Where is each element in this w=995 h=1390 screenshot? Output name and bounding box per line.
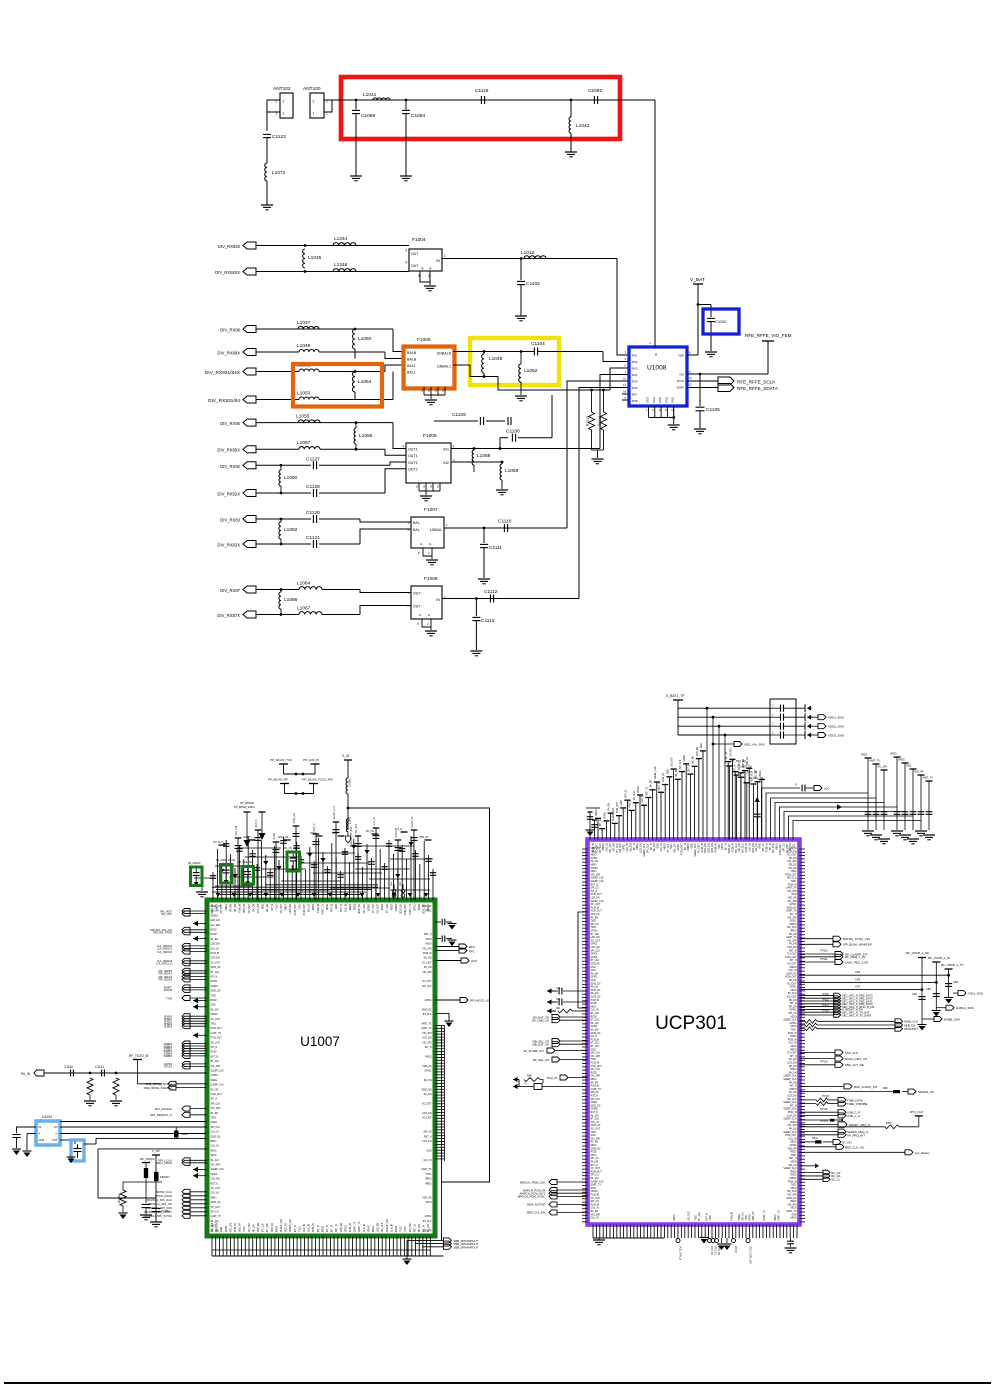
svg-text:GND: GND <box>646 397 650 403</box>
svg-text:INT_N: INT_N <box>790 960 797 962</box>
svg-text:PCM_IN: PCM_IN <box>732 843 734 852</box>
svg-text:VREG: VREG <box>739 1214 741 1221</box>
svg-text:VDDIO: VDDIO <box>789 924 796 926</box>
svg-text:UART_TX: UART_TX <box>321 904 324 915</box>
U1007 top pin drop wires <box>212 872 214 900</box>
svg-text:BFE_CLK_EN: BFE_CLK_EN <box>527 1211 545 1215</box>
connector VDD2_SNS <box>811 725 818 727</box>
UCP301 left conn pair 1 <box>552 1015 560 1020</box>
svg-text:LDO_EN: LDO_EN <box>787 1063 797 1065</box>
svg-text:SPI_CS: SPI_CS <box>309 904 311 913</box>
UCP301 right SERES rows <box>800 1131 839 1133</box>
inductor L1067 <box>299 612 322 615</box>
UCP301 bottom cap right <box>790 1238 792 1241</box>
svg-text:VDDIO: VDDIO <box>211 915 218 917</box>
svg-text:UART_TX: UART_TX <box>421 1168 432 1171</box>
svg-text:R310: R310 <box>886 1122 893 1125</box>
svg-text:VDD_PA: VDD_PA <box>243 904 246 913</box>
UCP301 right arrow row <box>800 1165 816 1167</box>
svg-text:PA_ON: PA_ON <box>789 1128 797 1131</box>
svg-text:BT_CLK: BT_CLK <box>591 1046 600 1048</box>
UCP301 top right columns <box>865 757 872 759</box>
svg-text:XO_OUT: XO_OUT <box>787 983 797 985</box>
svg-text:VDD_PA: VDD_PA <box>591 913 600 916</box>
svg-text:DIV_RX83X: DIV_RX83X <box>217 543 240 548</box>
svg-text:RF_PRQ_1_IN: RF_PRQ_1_IN <box>845 955 865 959</box>
wire RF to U1008 top <box>654 100 656 347</box>
svg-text:CR5: CR5 <box>855 970 861 974</box>
svg-text:RXD2: RXD2 <box>211 1052 218 1054</box>
svg-text:CLK_IN: CLK_IN <box>749 843 751 851</box>
svg-text:SLEEP_CLK: SLEEP_CLK <box>290 1218 292 1232</box>
svg-text:RST_N: RST_N <box>211 1056 219 1058</box>
filter F1008 <box>411 586 442 619</box>
svg-text:VDDIO: VDDIO <box>591 868 598 870</box>
svg-text:SLEEP_CLK: SLEEP_CLK <box>783 1079 797 1081</box>
svg-text:C1100: C1100 <box>715 319 727 324</box>
svg-text:PCM_OUT: PCM_OUT <box>591 1171 603 1173</box>
svg-text:GND: GND <box>664 397 668 403</box>
svg-text:PCM_OUT: PCM_OUT <box>785 874 797 876</box>
svg-text:UART_TX: UART_TX <box>211 1032 222 1035</box>
svg-text:OUT1: OUT1 <box>408 448 418 452</box>
svg-text:VIO_1P8: VIO_1P8 <box>591 1076 601 1078</box>
svg-text:SDIO_D0: SDIO_D0 <box>424 903 426 914</box>
svg-text:MOSI: MOSI <box>426 939 432 941</box>
svg-text:CR6: CR6 <box>855 977 861 981</box>
svg-text:GPS1: GPS1 <box>164 1065 172 1069</box>
UCP301 right lowbatt row <box>800 1151 906 1153</box>
svg-text:SPI_CLK: SPI_CLK <box>212 1222 214 1232</box>
svg-text:RF_EN: RF_EN <box>253 1224 255 1232</box>
svg-text:SPI_CS: SPI_CS <box>788 1013 797 1015</box>
UCP301 topleft corner cluster <box>589 812 591 840</box>
svg-text:L1067: L1067 <box>297 606 311 612</box>
svg-text:WL_EN: WL_EN <box>630 843 632 851</box>
wire RX920 <box>256 245 409 247</box>
UCP301 right conn top group <box>800 938 834 940</box>
capacitor CB2 <box>933 993 940 995</box>
svg-text:RST_N: RST_N <box>332 904 334 912</box>
svg-text:CLK_IN: CLK_IN <box>423 1160 431 1162</box>
wire U1007 topnet gl <box>201 878 203 891</box>
svg-text:L1042: L1042 <box>576 123 590 129</box>
svg-text:INT_N: INT_N <box>211 1099 218 1101</box>
capacitor C1105 <box>699 374 701 406</box>
svg-text:C06: C06 <box>556 987 561 990</box>
svg-text:SPI_CS: SPI_CS <box>591 1092 600 1094</box>
svg-text:SDIO_D0: SDIO_D0 <box>787 1198 798 1200</box>
svg-text:VIO_1P8: VIO_1P8 <box>787 891 797 893</box>
svg-text:L1059: L1059 <box>505 468 519 474</box>
svg-text:TP319: TP319 <box>820 1120 828 1123</box>
svg-text:UART_TX: UART_TX <box>591 1088 602 1091</box>
svg-text:SDHD2_CP: SDHD2_CP <box>918 1090 934 1094</box>
capacitor C1092 <box>593 96 595 104</box>
svg-text:CLK_IN: CLK_IN <box>364 1224 366 1232</box>
ferrite bead FB1007 <box>154 1172 159 1181</box>
svg-text:VIO_1P8: VIO_1P8 <box>787 901 797 903</box>
connector DIV_RX85 <box>243 419 256 426</box>
svg-text:SSBI5: SSBI5 <box>163 1054 172 1058</box>
svg-text:XO_OUT: XO_OUT <box>698 843 700 853</box>
inductor L1052 <box>520 352 522 365</box>
svg-text:SPI_CLK: SPI_CLK <box>787 1099 797 1101</box>
ground arrow bottom left <box>403 1258 412 1260</box>
svg-text:MISO: MISO <box>791 1218 797 1220</box>
inductor L1050 <box>353 329 356 349</box>
svg-text:VIO_1P8: VIO_1P8 <box>591 874 601 876</box>
svg-text:GPIO1: GPIO1 <box>789 904 797 906</box>
UCP301 bottom circ stub 4 <box>746 1239 750 1243</box>
svg-text:L1056: L1056 <box>359 433 373 439</box>
svg-text:LDO_EN: LDO_EN <box>787 1096 797 1098</box>
svg-text:GPIO1: GPIO1 <box>789 921 797 923</box>
green box 4 cap <box>290 857 297 859</box>
svg-text:VO: VO <box>54 1125 58 1129</box>
UCP301 bottom circ stub 3 <box>732 1239 736 1243</box>
svg-text:RST_N: RST_N <box>659 782 661 790</box>
svg-text:GPIO1: GPIO1 <box>591 957 599 959</box>
svg-text:PCM_IN: PCM_IN <box>313 1223 315 1232</box>
resistor R1055 <box>113 1078 119 1095</box>
svg-text:XO_OUT: XO_OUT <box>281 903 283 913</box>
connector DIV_RX85X <box>243 446 256 453</box>
svg-text:LDO_EN: LDO_EN <box>290 904 292 914</box>
svg-text:VDDIO: VDDIO <box>591 1109 598 1111</box>
svg-text:RF_XO_WLAN: RF_XO_WLAN <box>284 847 300 850</box>
svg-text:TXD1: TXD1 <box>719 843 721 850</box>
svg-text:RF_EN: RF_EN <box>591 1082 599 1084</box>
capacitor C1109 net <box>434 420 478 422</box>
svg-text:GND: GND <box>591 1188 596 1190</box>
svg-text:INT_N: INT_N <box>726 843 728 850</box>
ground below C1102 <box>515 315 527 317</box>
svg-text:VIO_1P8: VIO_1P8 <box>787 1204 797 1206</box>
wire PA row <box>44 1072 207 1074</box>
svg-text:SD_CMD_CP: SD_CMD_CP <box>532 1019 549 1023</box>
svg-text:SEC_NFC_P_TX_DATB: SEC_NFC_P_TX_DATB <box>842 1013 871 1017</box>
antenna ANT100 <box>310 93 324 118</box>
svg-text:MOSI: MOSI <box>637 843 639 849</box>
svg-text:TP318: TP318 <box>820 1108 828 1111</box>
svg-text:PCM_IN: PCM_IN <box>350 1223 352 1232</box>
svg-text:C1109: C1109 <box>452 412 466 418</box>
svg-text:MISO: MISO <box>211 1197 217 1199</box>
svg-text:TXD1: TXD1 <box>746 1214 748 1221</box>
svg-text:MISO: MISO <box>791 1142 797 1144</box>
svg-text:L1055: L1055 <box>296 414 310 420</box>
svg-text:RF_SDA3: RF_SDA3 <box>158 978 172 982</box>
svg-text:low_battery: low_battery <box>915 1151 930 1155</box>
svg-text:LDO_EN: LDO_EN <box>641 843 643 853</box>
svg-text:WL_EN: WL_EN <box>211 1160 219 1162</box>
svg-text:SPI_CS: SPI_CS <box>783 843 785 852</box>
wire U1008 bottom pins <box>648 406 650 418</box>
connector RFE_RFFE_SCLK <box>718 377 734 385</box>
svg-text:RF_EN: RF_EN <box>230 904 232 912</box>
wire RX88X <box>256 351 299 353</box>
svg-text:XO_OUT: XO_OUT <box>787 843 789 853</box>
svg-text:TXD1: TXD1 <box>791 871 798 873</box>
inductor L1054 <box>352 372 355 393</box>
svg-text:XO_OUT: XO_OUT <box>211 1188 221 1190</box>
svg-text:UCP301: UCP301 <box>655 1013 727 1034</box>
svg-text:UART_TX: UART_TX <box>763 1210 766 1221</box>
svg-text:VDD_PA: VDD_PA <box>419 836 429 839</box>
svg-text:VDDIO: VDDIO <box>396 904 398 911</box>
svg-text:VDD_PA: VDD_PA <box>752 1211 755 1220</box>
svg-text:MISO: MISO <box>777 843 779 849</box>
svg-text:IN2: IN2 <box>443 461 449 465</box>
svg-text:G: G <box>415 485 419 487</box>
svg-text:BAL: BAL <box>413 528 420 532</box>
svg-text:GPIO1: GPIO1 <box>424 1216 432 1218</box>
svg-text:SDIO_D0: SDIO_D0 <box>591 1125 602 1127</box>
wire V_SP branch <box>155 1155 157 1222</box>
inductor L1244 <box>333 243 356 246</box>
svg-text:UART_TX: UART_TX <box>786 936 797 939</box>
svg-text:WL_EN: WL_EN <box>211 1009 219 1011</box>
svg-text:SDIO_D0: SDIO_D0 <box>217 1221 219 1232</box>
svg-text:LDO_EN: LDO_EN <box>258 1222 260 1232</box>
svg-text:BALB: BALB <box>407 358 417 362</box>
svg-text:2: 2 <box>283 100 285 104</box>
svg-text:C1113: C1113 <box>481 618 495 624</box>
svg-text:UNBALB: UNBALB <box>437 352 452 356</box>
svg-text:SCLK: SCLK <box>677 379 684 383</box>
svg-text:VDD_PA: VDD_PA <box>285 1223 288 1232</box>
svg-text:PCM_IN: PCM_IN <box>788 1033 797 1035</box>
wire U1008 VIO <box>687 373 768 375</box>
svg-text:C1120: C1120 <box>306 510 320 516</box>
svg-text:XO_OUT: XO_OUT <box>591 940 601 942</box>
svg-text:MISO: MISO <box>591 855 597 857</box>
wire F1006 IN1 <box>451 448 600 450</box>
connector DIV_RX931/84X <box>243 368 256 375</box>
svg-text:VREG: VREG <box>226 904 228 911</box>
svg-text:OUT: OUT <box>52 1138 58 1142</box>
svg-text:RXD2: RXD2 <box>396 1225 398 1232</box>
svg-text:RXD2: RXD2 <box>226 1225 228 1232</box>
wire F1005 gnd pins <box>423 387 425 395</box>
inductor L1045 <box>303 249 305 268</box>
svg-text:PA_ON: PA_ON <box>789 943 797 946</box>
svg-text:XO_OUT: XO_OUT <box>688 1210 690 1220</box>
wire U1008 SCLK <box>687 380 718 382</box>
ground below C1094 <box>400 175 412 177</box>
svg-text:RTC_CLK: RTC_CLK <box>910 1110 923 1114</box>
ground below C1100 <box>705 351 717 353</box>
svg-text:L1054: L1054 <box>358 379 372 385</box>
svg-text:RF_EN: RF_EN <box>790 843 792 851</box>
svg-text:R99: R99 <box>883 1087 888 1090</box>
svg-text:SLEEP_CLK: SLEEP_CLK <box>783 1168 797 1170</box>
svg-text:I2C_CP: I2C_CP <box>831 1171 841 1175</box>
svg-text:INT_N: INT_N <box>318 1225 320 1232</box>
svg-text:VIO_1P8: VIO_1P8 <box>787 1195 797 1197</box>
page bottom rule <box>4 1382 991 1384</box>
svg-text:CLK_IN: CLK_IN <box>304 1224 306 1232</box>
svg-text:PA_ON: PA_ON <box>789 1091 797 1094</box>
svg-text:TXD1: TXD1 <box>794 843 796 850</box>
svg-text:PCM_OUT: PCM_OUT <box>591 894 603 896</box>
svg-text:AP_SLAMP_INT: AP_SLAMP_INT <box>523 1049 544 1053</box>
svg-text:SDAT: SDAT <box>677 386 685 390</box>
cap gnd arrows <box>804 704 806 712</box>
svg-text:RST_N: RST_N <box>211 1183 219 1185</box>
ground arrow below small blue box <box>67 1156 76 1158</box>
wire UNBALB net <box>453 351 534 353</box>
svg-text:VIO_1P8: VIO_1P8 <box>877 766 887 769</box>
svg-text:ST_PRQ_1M: ST_PRQ_1M <box>731 760 745 763</box>
svg-text:SDIO_D0: SDIO_D0 <box>591 990 602 992</box>
UCP301 right res rows <box>800 1020 806 1022</box>
svg-text:VIO_1P8: VIO_1P8 <box>230 1222 232 1232</box>
svg-text:RF_EN: RF_EN <box>789 1000 797 1002</box>
svg-text:MOSI: MOSI <box>791 1162 797 1164</box>
svg-text:RXD2: RXD2 <box>350 903 352 910</box>
U1007 bottom bus lines <box>212 1255 443 1257</box>
svg-text:CLK_IN: CLK_IN <box>591 1122 599 1124</box>
svg-text:SPI_CS: SPI_CS <box>756 843 758 852</box>
svg-text:XO_OUT: XO_OUT <box>355 823 358 833</box>
svg-text:C1092: C1092 <box>588 88 602 94</box>
svg-text:C: C <box>772 723 774 726</box>
connector VBB_SPKAMPOUT3 <box>443 1244 451 1249</box>
connector VBB_SPKAMPOUT1 <box>443 1238 451 1243</box>
UCP301 left res row <box>547 1010 556 1012</box>
svg-text:IN: IN <box>436 598 440 602</box>
svg-text:TXD1: TXD1 <box>791 881 798 883</box>
svg-text:1: 1 <box>444 254 446 258</box>
svg-text:R31: R31 <box>556 1007 561 1010</box>
svg-text:SPI_CLK: SPI_CLK <box>211 1127 221 1129</box>
svg-text:PCM_OUT: PCM_OUT <box>785 1135 797 1137</box>
svg-text:BT_CLK: BT_CLK <box>591 960 600 962</box>
svg-text:VDDQ: VDDQ <box>734 1246 736 1253</box>
ground arrow CB1 <box>944 997 953 999</box>
connector HVBB_SNS <box>922 1018 934 1020</box>
svg-text:C1141: C1141 <box>95 1065 104 1069</box>
IC U1008 box <box>629 347 687 406</box>
wire U1004 VO to U1007 <box>60 1126 207 1128</box>
svg-text:GND: GND <box>221 1227 223 1232</box>
inductor L1062 <box>280 519 282 522</box>
svg-text:UART_TX: UART_TX <box>777 1210 780 1221</box>
svg-text:HWA_ACTIVE: HWA_ACTIVE <box>527 1203 545 1207</box>
svg-text:BT_CLK: BT_CLK <box>423 1014 432 1016</box>
svg-text:RXD2: RXD2 <box>790 1171 797 1173</box>
svg-text:SPI_BLNK_WAKEUP: SPI_BLNK_WAKEUP <box>843 943 872 947</box>
inductor L1047 <box>298 326 319 329</box>
svg-text:SLEEP_CLK: SLEEP_CLK <box>333 805 336 819</box>
svg-text:UART_TX: UART_TX <box>411 816 414 827</box>
svg-text:INT_N: INT_N <box>726 752 728 759</box>
svg-text:GPIO1: GPIO1 <box>211 1174 219 1176</box>
svg-text:BROCH_PDM_CLK: BROCH_PDM_CLK <box>520 1180 545 1184</box>
wire r hook <box>435 1013 449 1021</box>
svg-text:PCM_OUT: PCM_OUT <box>785 977 797 979</box>
U1007 top tall arrow columns <box>246 812 248 840</box>
svg-text:PCM_IN: PCM_IN <box>240 904 242 913</box>
svg-text:GND: GND <box>760 843 762 848</box>
green box 3 cap <box>244 871 251 873</box>
svg-text:SPI_CLK: SPI_CLK <box>422 986 432 988</box>
svg-text:SLEEP_CLK: SLEEP_CLK <box>591 901 605 903</box>
svg-text:C1106: C1106 <box>506 429 520 435</box>
svg-text:LDO_EN: LDO_EN <box>591 898 601 900</box>
wire U1007 r2 <box>435 938 441 940</box>
svg-text:C89: C89 <box>926 987 931 991</box>
capacitor CB3 <box>918 996 925 998</box>
svg-text:TP316: TP316 <box>820 1059 828 1063</box>
svg-text:RF_SEL_CP: RF_SEL_CP <box>533 1058 549 1062</box>
wire U1007 r1 <box>435 921 441 923</box>
svg-text:SDIO_D0: SDIO_D0 <box>211 1202 222 1204</box>
svg-text:WL_EN: WL_EN <box>654 843 656 851</box>
connector VDD1_SNS <box>811 716 818 718</box>
svg-text:XO_OUT: XO_OUT <box>787 964 797 966</box>
svg-text:C1110: C1110 <box>498 519 512 525</box>
svg-text:PCM_IN: PCM_IN <box>318 904 320 913</box>
svg-text:WL_EN: WL_EN <box>739 843 741 851</box>
svg-text:GPIO1: GPIO1 <box>591 931 599 933</box>
svg-text:U1007: U1007 <box>300 1034 340 1049</box>
connector DIV_RX83 <box>243 516 256 523</box>
svg-text:SLEEP_CLK: SLEEP_CLK <box>783 1132 797 1134</box>
svg-text:PA_ON: PA_ON <box>789 1081 797 1084</box>
svg-text:PCM_IN: PCM_IN <box>211 953 220 955</box>
svg-text:MISO: MISO <box>591 865 597 867</box>
svg-text:SDIO_D0: SDIO_D0 <box>401 903 403 914</box>
svg-text:VIO_1P8: VIO_1P8 <box>235 825 238 835</box>
svg-text:LDO_EN: LDO_EN <box>211 1179 221 1181</box>
svg-text:SDIO_D0: SDIO_D0 <box>729 843 731 854</box>
svg-text:VDD_PA: VDD_PA <box>422 1196 431 1199</box>
svg-text:XO_OUT: XO_OUT <box>787 1053 797 1055</box>
svg-text:ST_ON: ST_ON <box>842 1140 852 1144</box>
svg-text:L1062: L1062 <box>284 527 298 533</box>
svg-text:RXD2: RXD2 <box>638 786 640 793</box>
svg-text:F1008: F1008 <box>424 576 438 582</box>
svg-text:VDD3_SNS: VDD3_SNS <box>828 734 844 738</box>
svg-text:TP317: TP317 <box>822 1095 830 1098</box>
connector DIV_RX87X <box>243 611 256 618</box>
svg-text:GPIO1: GPIO1 <box>591 954 599 956</box>
UCP301 left comp low <box>519 1086 534 1088</box>
svg-text:GND: GND <box>658 397 662 403</box>
capacitor C1112 <box>489 595 491 603</box>
svg-text:C1123: C1123 <box>272 134 286 140</box>
capacitor C1106 <box>499 438 501 449</box>
svg-text:RST_N: RST_N <box>706 1213 708 1221</box>
svg-text:BSP_AUDIO_INT: BSP_AUDIO_INT <box>854 1085 878 1089</box>
svg-text:XO_OUT: XO_OUT <box>672 757 674 767</box>
svg-text:VREG: VREG <box>310 832 317 835</box>
highlight green box 3 <box>242 867 254 885</box>
svg-text:WL_EN: WL_EN <box>676 769 678 777</box>
svg-text:BT_CLK: BT_CLK <box>267 1223 269 1232</box>
UCP301 left pin ticks <box>582 848 588 850</box>
svg-text:SLEEP_CLK: SLEEP_CLK <box>644 843 646 857</box>
UCP301 left bottom connectors <box>549 1180 557 1185</box>
wire UNBAL1 net <box>453 365 498 377</box>
inductor L1080 <box>346 778 348 794</box>
bead circuit 2 link <box>285 793 314 795</box>
wire RX92X <box>256 492 311 494</box>
U1007 top tall columns <box>237 838 239 900</box>
